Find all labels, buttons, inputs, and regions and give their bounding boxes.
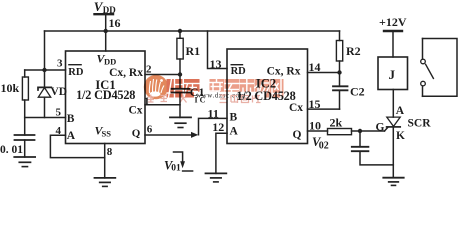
svg-text:R1: R1 bbox=[186, 44, 201, 58]
svg-text:K: K bbox=[396, 130, 405, 142]
svg-text:8: 8 bbox=[107, 146, 113, 158]
svg-text:Cx: Cx bbox=[289, 102, 303, 114]
svg-text:Cx: Cx bbox=[128, 104, 142, 116]
svg-text:02: 02 bbox=[319, 140, 329, 151]
svg-text:Q: Q bbox=[293, 129, 302, 141]
svg-text:I C: I C bbox=[195, 96, 206, 105]
svg-text:A: A bbox=[67, 130, 76, 142]
svg-text:RD: RD bbox=[231, 66, 247, 77]
svg-text:J: J bbox=[389, 67, 396, 82]
svg-text:15: 15 bbox=[309, 97, 321, 111]
svg-text:RD: RD bbox=[68, 67, 84, 78]
svg-text:12: 12 bbox=[212, 120, 224, 134]
svg-text:R2: R2 bbox=[346, 44, 361, 58]
svg-text:SCR: SCR bbox=[408, 118, 432, 130]
svg-text:01: 01 bbox=[171, 163, 181, 173]
svg-text:VD: VD bbox=[51, 86, 68, 98]
svg-text:DD: DD bbox=[103, 5, 116, 15]
svg-text:DD: DD bbox=[104, 57, 116, 67]
svg-text:C2: C2 bbox=[350, 85, 365, 99]
svg-text:2: 2 bbox=[146, 63, 152, 75]
svg-text:0. 01: 0. 01 bbox=[0, 144, 23, 156]
svg-text:5: 5 bbox=[56, 107, 62, 119]
svg-text:11: 11 bbox=[208, 106, 219, 120]
svg-text:16: 16 bbox=[109, 16, 121, 30]
svg-text:B: B bbox=[67, 113, 75, 125]
svg-text:2k: 2k bbox=[330, 116, 343, 130]
svg-text:6: 6 bbox=[147, 124, 153, 136]
svg-text:A: A bbox=[230, 126, 239, 138]
svg-text:Q: Q bbox=[132, 127, 141, 139]
svg-text:G: G bbox=[376, 121, 385, 133]
svg-text:10: 10 bbox=[309, 118, 321, 132]
svg-text:B: B bbox=[230, 111, 238, 123]
svg-text:13: 13 bbox=[210, 57, 222, 71]
svg-text:A: A bbox=[396, 105, 405, 117]
svg-text:Cx, Rx: Cx, Rx bbox=[109, 67, 143, 79]
svg-text:4: 4 bbox=[56, 125, 62, 137]
svg-text:+12V: +12V bbox=[379, 15, 407, 29]
svg-text:1/2 CD4528: 1/2 CD4528 bbox=[76, 88, 135, 102]
svg-text:10k: 10k bbox=[1, 81, 20, 95]
svg-text:14: 14 bbox=[309, 60, 321, 74]
svg-text:SS: SS bbox=[102, 128, 112, 138]
svg-text:3: 3 bbox=[57, 57, 63, 69]
